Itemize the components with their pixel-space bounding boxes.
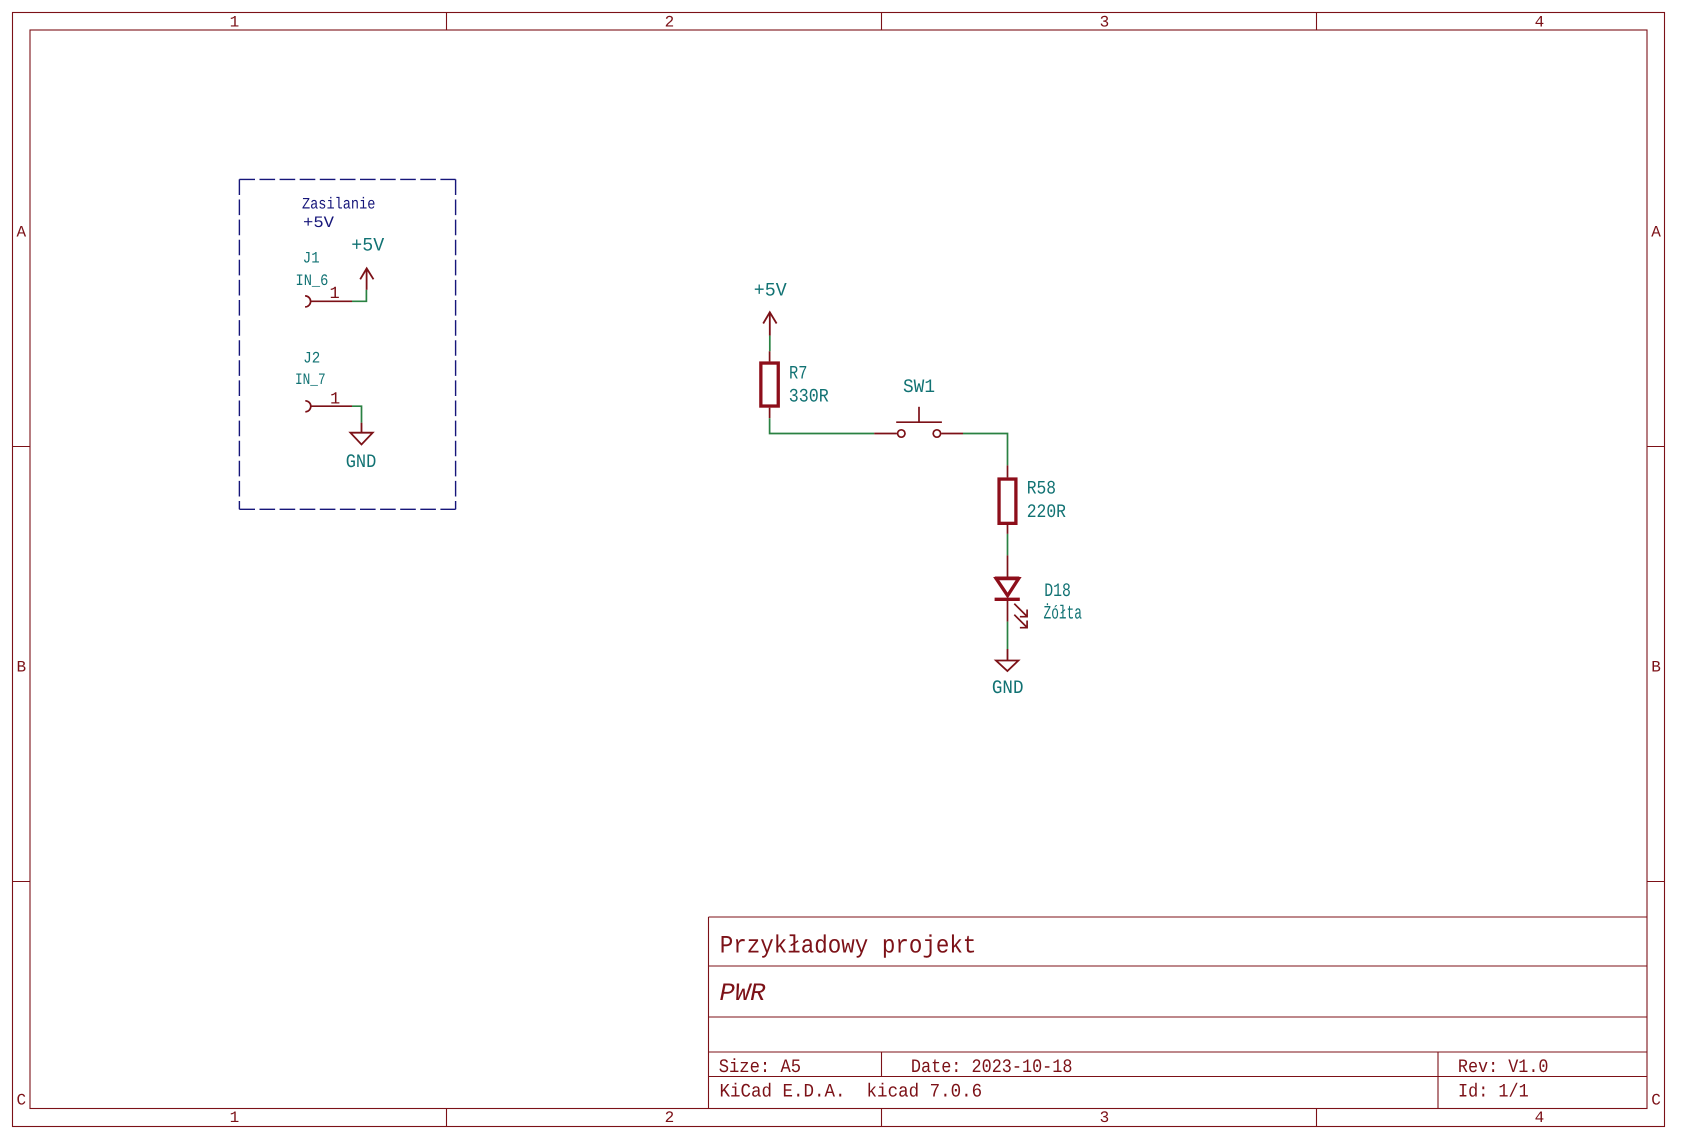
svg-text:R58: R58 (1027, 478, 1056, 500)
svg-text:B: B (1651, 658, 1661, 676)
svg-text:1: 1 (230, 14, 240, 32)
svg-text:J1: J1 (303, 250, 320, 268)
R7 bottom pin (769, 408, 771, 419)
annotation box Zasilanie +5V (239, 179, 455, 509)
wire SW1 to R58 (963, 434, 1008, 466)
resistor R58 (999, 479, 1016, 523)
svg-text:220R: 220R (1027, 501, 1066, 523)
LED D18 (995, 578, 1028, 628)
svg-text:1: 1 (330, 285, 340, 304)
R7 top pin (769, 351, 771, 361)
D18 bottom pin (1007, 601, 1009, 622)
svg-text:3: 3 (1100, 14, 1110, 32)
svg-text:Przykładowy projekt: Przykładowy projekt (720, 932, 977, 961)
wire R58 to D18 (1007, 534, 1009, 556)
svg-text:C: C (17, 1092, 27, 1110)
svg-text:KiCad E.D.A. kicad 7.0.6: KiCad E.D.A. kicad 7.0.6 (720, 1080, 983, 1102)
svg-text:A: A (1651, 223, 1661, 241)
svg-text:SW1: SW1 (903, 376, 935, 398)
connector J1 pin arc (305, 296, 311, 307)
svg-text:Żółta: Żółta (1044, 603, 1083, 625)
svg-text:Id: 1/1: Id: 1/1 (1458, 1080, 1529, 1102)
SW1 right pin (941, 433, 963, 435)
wire +5V to R7 (769, 336, 771, 352)
SW1 left pin (874, 433, 897, 435)
switch SW1 (896, 407, 942, 437)
svg-text:4: 4 (1535, 1109, 1545, 1127)
connector J1 pin line (311, 300, 352, 302)
wire R7 to SW1 (770, 418, 875, 433)
D18 top pin (1007, 555, 1009, 578)
connector J2 pin arc (305, 401, 311, 412)
svg-text:Zasilanie: Zasilanie (302, 196, 375, 214)
svg-text:Date: 2023-10-18: Date: 2023-10-18 (911, 1056, 1073, 1078)
wire J2 to GND (352, 406, 362, 423)
R58 top pin (1007, 465, 1009, 477)
svg-text:D18: D18 (1044, 580, 1071, 602)
wire J1 to +5V (352, 290, 366, 302)
svg-text:1: 1 (230, 1109, 240, 1127)
svg-text:GND: GND (346, 451, 377, 473)
svg-text:2: 2 (665, 1109, 675, 1127)
R58 bottom pin (1007, 523, 1009, 534)
svg-text:+5V: +5V (754, 280, 787, 302)
svg-text:J2: J2 (303, 350, 320, 368)
power +5V symbol main (763, 312, 776, 335)
title block (709, 917, 1648, 1109)
svg-text:Rev: V1.0: Rev: V1.0 (1458, 1056, 1549, 1078)
svg-text:IN_7: IN_7 (295, 371, 326, 389)
svg-text:330R: 330R (789, 386, 829, 408)
ground GND at D18 (996, 649, 1018, 671)
svg-text:2: 2 (665, 14, 675, 32)
svg-text:B: B (17, 658, 27, 676)
svg-text:4: 4 (1535, 14, 1545, 32)
svg-text:GND: GND (992, 677, 1024, 699)
svg-text:R7: R7 (789, 362, 807, 384)
svg-text:1: 1 (330, 390, 340, 409)
ground GND at J2 (350, 423, 372, 445)
svg-text:A: A (17, 223, 27, 241)
svg-text:PWR: PWR (720, 979, 766, 1008)
svg-text:+5V: +5V (351, 235, 384, 257)
svg-text:IN_6: IN_6 (296, 272, 329, 290)
connector J2 pin line (312, 405, 353, 407)
svg-text:Size: A5: Size: A5 (719, 1056, 801, 1078)
power +5V symbol at J1 (360, 268, 373, 289)
svg-text:3: 3 (1100, 1109, 1110, 1127)
svg-text:C: C (1651, 1092, 1661, 1110)
resistor R7 (761, 363, 778, 406)
svg-text:+5V: +5V (303, 214, 334, 232)
wire D18 to GND (1007, 622, 1009, 649)
